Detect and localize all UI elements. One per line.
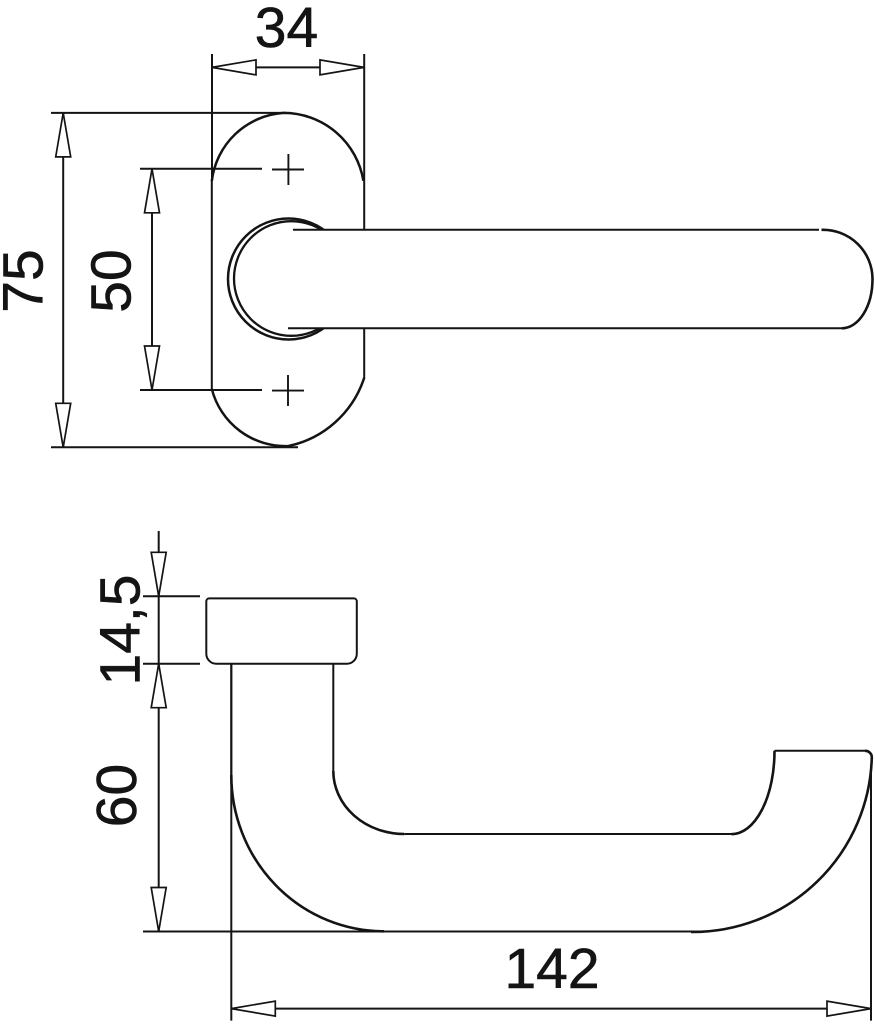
svg-text:14,5: 14,5 — [89, 575, 153, 686]
svg-text:34: 34 — [255, 0, 318, 60]
svg-text:60: 60 — [85, 764, 149, 827]
svg-text:142: 142 — [504, 937, 599, 1001]
svg-text:50: 50 — [80, 249, 144, 312]
svg-text:75: 75 — [0, 249, 56, 312]
